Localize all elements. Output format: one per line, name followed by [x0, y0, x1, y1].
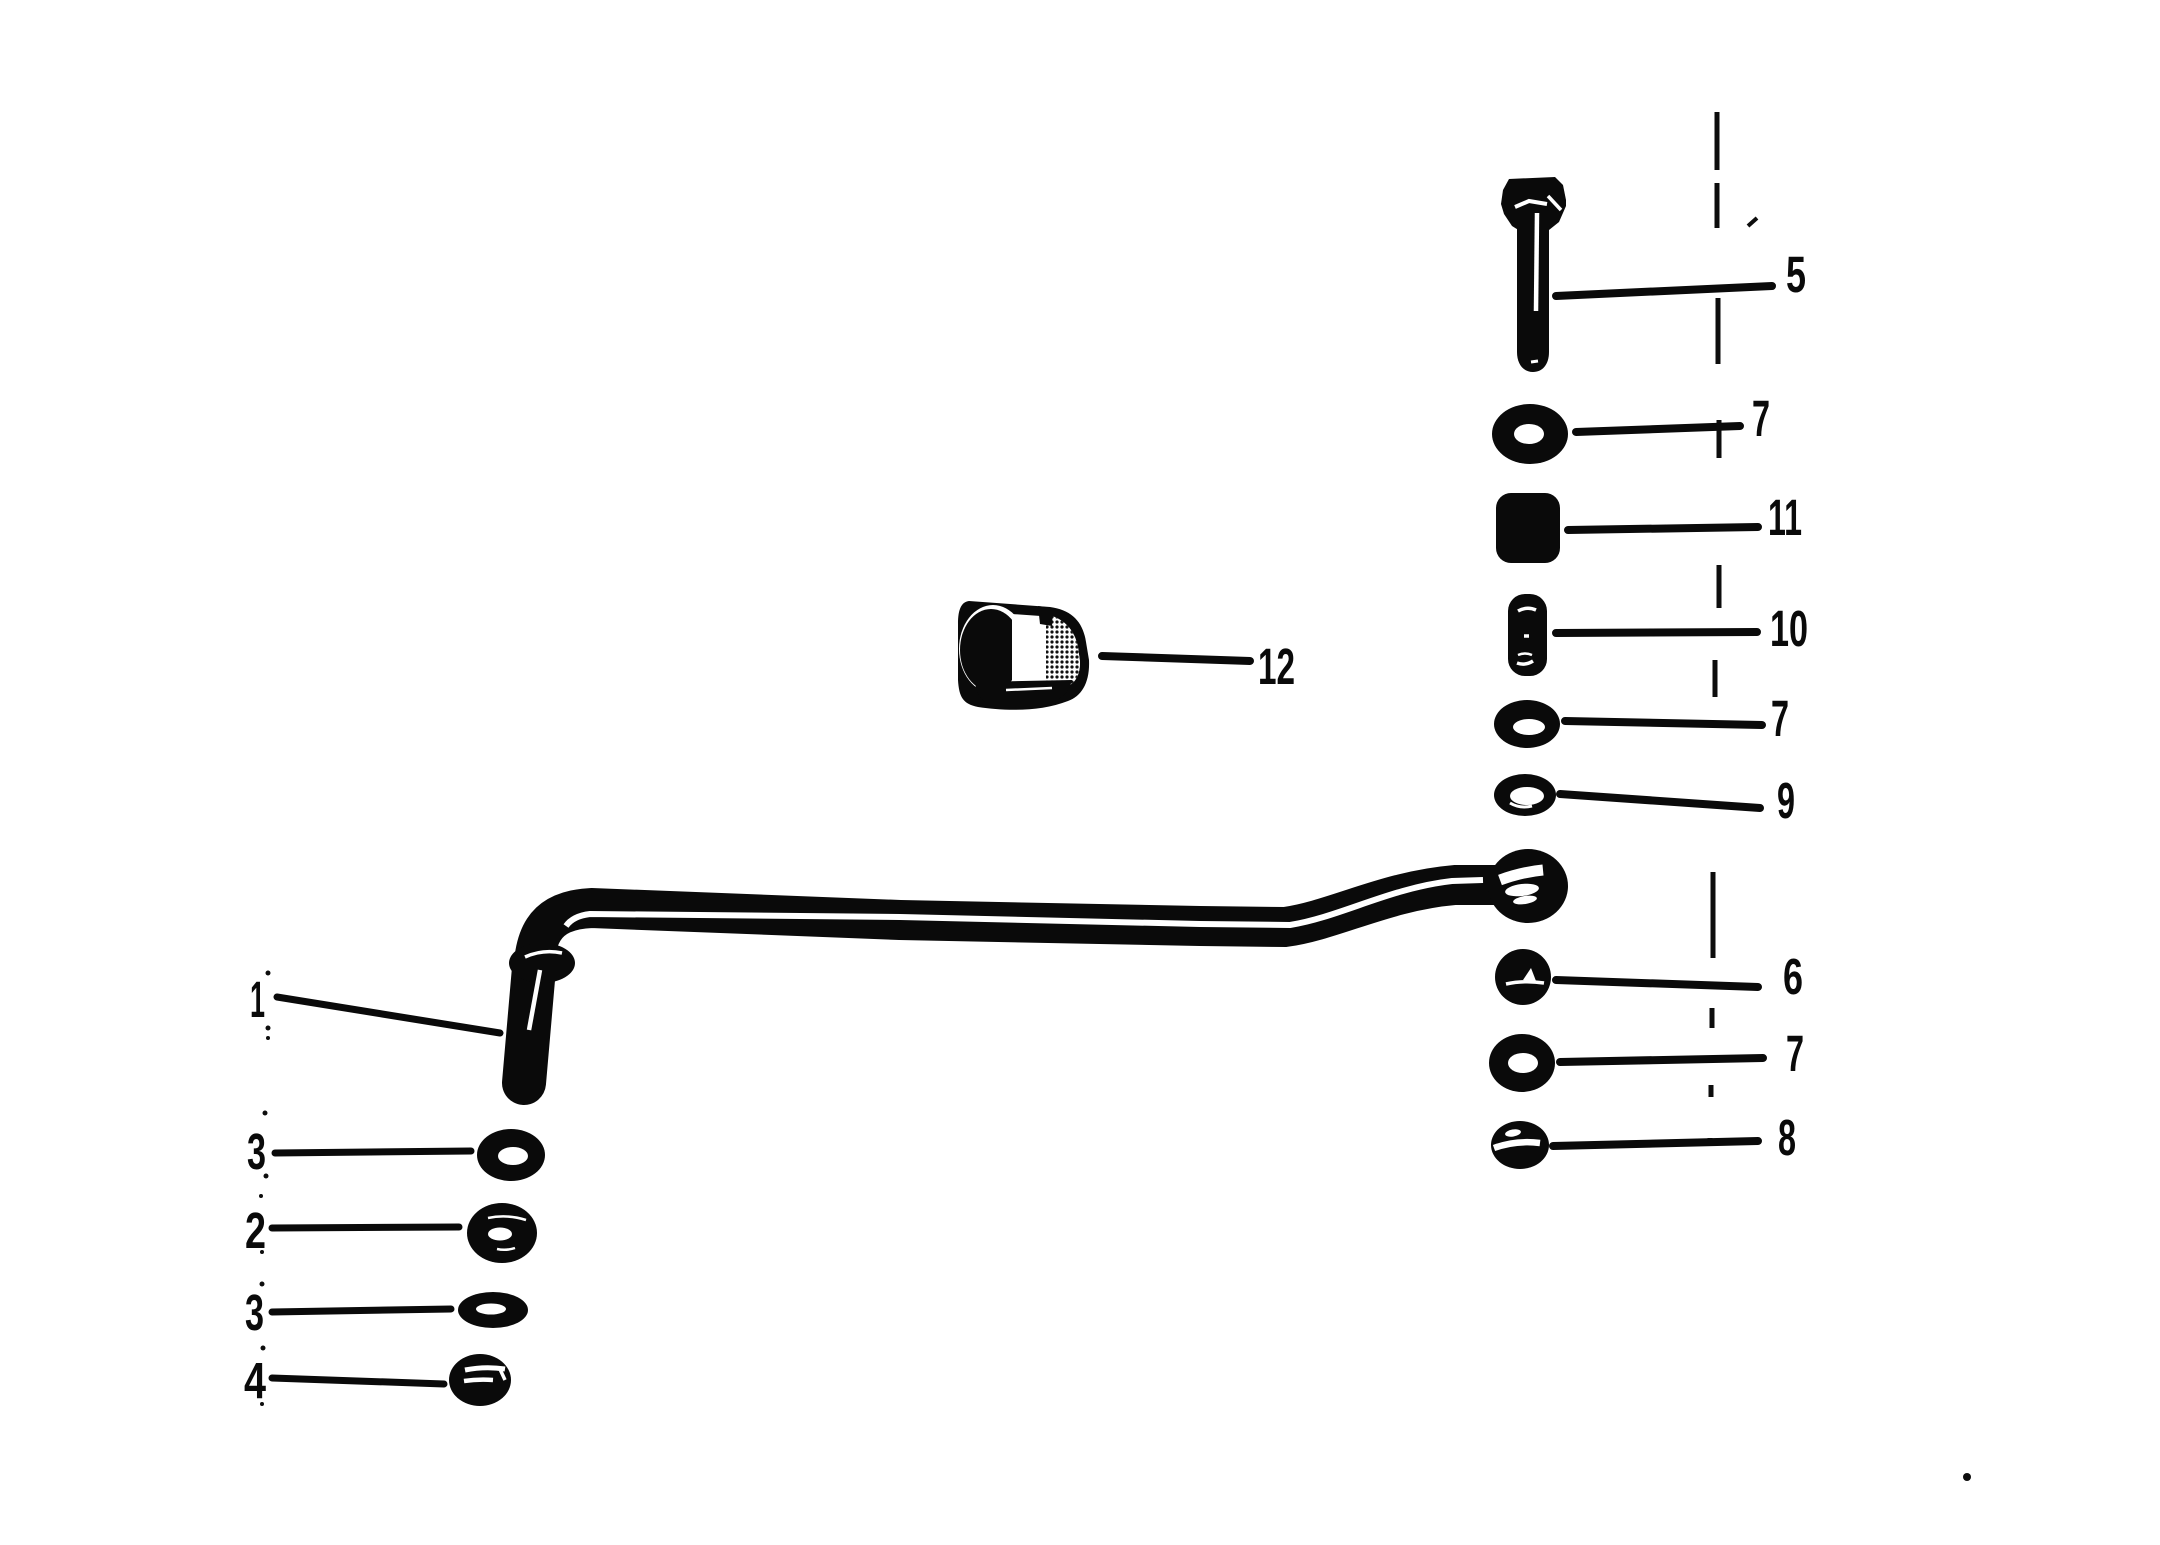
leader 10: [1556, 632, 1757, 633]
spacer 10: [1508, 594, 1547, 676]
leader 1: [277, 997, 500, 1033]
leader 11: [1568, 527, 1758, 530]
svg-text:1: 1: [250, 971, 265, 1028]
leader 7c: [1560, 1058, 1763, 1062]
svg-text:11: 11: [1768, 489, 1802, 546]
leader 3b: [272, 1309, 451, 1312]
svg-text:4: 4: [244, 1352, 266, 1409]
tick mark: [1748, 218, 1757, 226]
leader 2: [272, 1227, 459, 1228]
washer 7c: [1489, 1034, 1555, 1092]
svg-text:7: 7: [1752, 390, 1770, 447]
nut 8: [1491, 1121, 1549, 1169]
svg-text:7: 7: [1786, 1025, 1804, 1082]
svg-text:9: 9: [1777, 772, 1795, 829]
leader 12: [1102, 656, 1250, 661]
washer 9: [1494, 774, 1556, 816]
leader 4: [272, 1378, 444, 1384]
svg-text:12: 12: [1258, 638, 1295, 695]
leader 7a: [1576, 426, 1740, 432]
stray specks: [259, 971, 1971, 1482]
nut 4: [449, 1354, 511, 1406]
cap nut 12: [958, 601, 1089, 710]
svg-text:6: 6: [1783, 948, 1803, 1005]
bolt 5: [1501, 177, 1566, 372]
washer 7a: [1492, 404, 1568, 464]
leader 6: [1556, 980, 1758, 987]
svg-text:5: 5: [1786, 246, 1806, 303]
washer 7b: [1494, 700, 1560, 748]
washer 3b: [458, 1292, 528, 1328]
svg-text:8: 8: [1778, 1109, 1796, 1166]
dashed reference line: [1710, 112, 1719, 1144]
leader 7b: [1565, 721, 1762, 725]
leader 3a: [275, 1151, 471, 1153]
bushing 6: [1495, 949, 1551, 1005]
bushing block 11: [1496, 493, 1560, 563]
svg-text:10: 10: [1770, 600, 1808, 657]
link rod 1 (pin, bend, shaft, eye): [509, 849, 1568, 1083]
leader 9: [1560, 794, 1760, 808]
leader 8: [1553, 1141, 1758, 1146]
svg-text:3: 3: [247, 1123, 266, 1180]
bushing 2: [467, 1203, 537, 1263]
washer 3a: [477, 1129, 545, 1181]
leader 5: [1556, 286, 1772, 296]
svg-text:7: 7: [1771, 690, 1789, 747]
svg-text:3: 3: [245, 1284, 264, 1341]
